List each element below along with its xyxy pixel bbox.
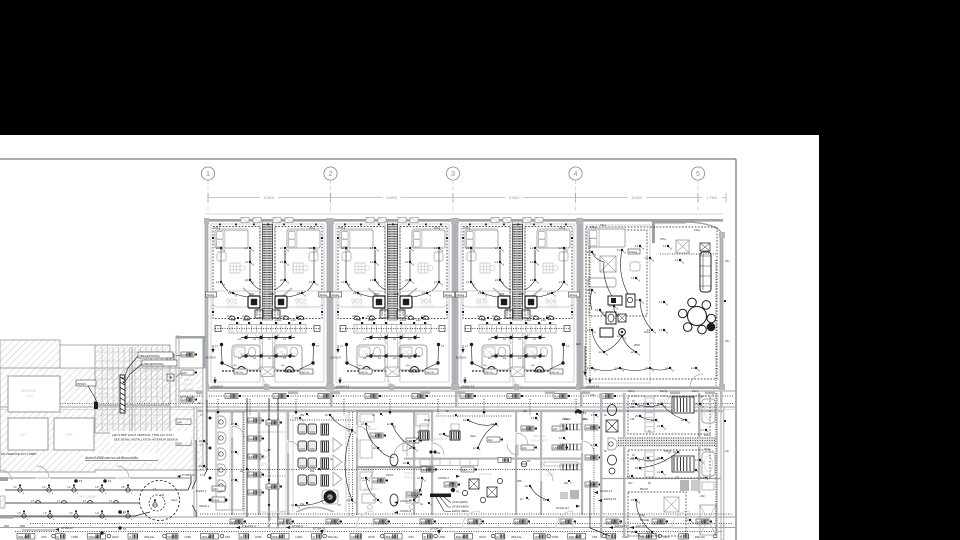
svg-text:2F’9: 2F’9 [262, 455, 271, 460]
svg-text:ELP10-9: ELP10-9 [206, 357, 216, 360]
svg-text:25dL13e: 25dL13e [456, 535, 467, 539]
svg-text:(SL): (SL) [358, 365, 362, 367]
svg-text:L1: L1 [531, 416, 535, 420]
svg-text:1O01: 1O01 [477, 305, 489, 311]
svg-text:WC: WC [532, 352, 537, 356]
svg-text:L2: L2 [631, 530, 635, 534]
svg-text:L5: L5 [635, 414, 639, 418]
svg-text:L2: L2 [363, 337, 366, 341]
waiting area chairs [293, 415, 346, 512]
dirty utility room [167, 336, 206, 407]
svg-text:LP10A-5: LP10A-5 [400, 509, 412, 513]
svg-text:LP10A-3: LP10A-3 [292, 524, 303, 528]
svg-text:EQUIPMENT: EQUIPMENT [531, 439, 548, 443]
svg-text:25e: 25e [300, 414, 305, 417]
svg-text:L1: L1 [657, 470, 661, 474]
svg-text:25b: 25b [517, 479, 522, 483]
svg-text:1O02: 1O02 [296, 305, 308, 311]
svg-text:P-ELP10-3: P-ELP10-3 [242, 524, 256, 528]
svg-text:A24: A24 [373, 479, 378, 483]
svg-text:L7: L7 [231, 422, 235, 426]
consult lower desks [362, 494, 375, 503]
svg-text:L3: L3 [370, 260, 374, 264]
suite wiring runs [592, 252, 604, 262]
treatment area [394, 418, 460, 456]
svg-text:25dL13e: 25dL13e [235, 372, 244, 374]
svg-text:L3: L3 [405, 278, 409, 282]
svg-text:L9LA: L9LA [171, 498, 177, 502]
svg-text:A24: A24 [267, 421, 272, 425]
svg-text:LP10A-17: LP10A-17 [600, 489, 612, 493]
svg-text:L9: L9 [199, 439, 203, 443]
svg-text:L13A: L13A [281, 315, 287, 318]
svg-text:L1: L1 [216, 246, 220, 250]
svg-text:AREA: AREA [404, 476, 412, 480]
svg-text:LP10A-1: LP10A-1 [199, 504, 210, 508]
svg-text:LP3D: LP3D [71, 535, 78, 539]
svg-text:A24: A24 [213, 487, 218, 491]
svg-text:L7: L7 [591, 443, 595, 447]
svg-text:L5: L5 [631, 456, 635, 460]
grid bubble 4 [569, 167, 582, 213]
bottom corridor panels [230, 519, 246, 524]
svg-text:L13A: L13A [242, 315, 248, 318]
svg-text:25dL13e: 25dL13e [695, 535, 706, 539]
svg-text:53e,: 53e, [640, 513, 645, 517]
extra suite dots [635, 414, 643, 418]
svg-text:L1: L1 [466, 246, 470, 250]
svg-text:L5La: L5La [600, 223, 606, 227]
svg-text:L1: L1 [695, 458, 699, 462]
svg-text:8.0000: 8.0000 [509, 196, 519, 200]
svg-text:25dL13e: 25dL13e [202, 535, 213, 539]
svg-text:L33A: L33A [525, 318, 531, 322]
svg-text:25dL13e: 25dL13e [485, 372, 494, 374]
svg-text:L2: L2 [518, 356, 521, 360]
hatch-side riser wire [204, 400, 207, 476]
svg-text:L33: L33 [416, 318, 421, 322]
svg-text:(I): (I) [496, 535, 499, 539]
svg-text:L1: L1 [627, 474, 631, 478]
svg-text:L7: L7 [231, 478, 235, 482]
svg-text:8.0000: 8.0000 [632, 196, 642, 200]
svg-text:L13A: L13A [492, 315, 498, 318]
svg-text:F2: F2 [456, 490, 460, 494]
svg-text:(I): (I) [56, 535, 59, 539]
mid-block feeder [200, 469, 578, 471]
svg-text:CLEAN: CLEAN [546, 468, 556, 472]
svg-text:LP3D: LP3D [439, 535, 446, 539]
svg-text:L1: L1 [466, 280, 470, 284]
svg-text:L13A: L13A [367, 315, 373, 318]
svg-text:ELP10-1: ELP10-1 [196, 489, 207, 493]
svg-text:L33A: L33A [400, 318, 406, 322]
svg-text:LINEN: LINEN [546, 473, 555, 477]
svg-text:L3: L3 [245, 278, 249, 282]
OB10 riser leaders [120, 352, 177, 413]
waiting dots [295, 416, 305, 422]
lower suite half [628, 450, 710, 478]
svg-text:L9: L9 [199, 464, 203, 468]
svg-text:TREATMENT: TREATMENT [430, 437, 448, 441]
suite table [600, 256, 616, 272]
svg-text:4Sodeg: 4Sodeg [319, 295, 328, 297]
svg-text:ELP: ELP [576, 342, 581, 346]
svg-text:L2: L2 [387, 422, 391, 426]
svg-text:L2: L2 [488, 356, 491, 360]
bottom strip fixture tags [15, 532, 722, 540]
svg-text:L5T-g: L5T-g [559, 227, 566, 230]
svg-text:A24: A24 [249, 455, 254, 459]
svg-text:OB10(EXISTING): OB10(EXISTING) [140, 354, 160, 358]
nurse area [394, 458, 511, 514]
svg-text:L33: L33 [291, 318, 296, 322]
svg-text:L1: L1 [309, 246, 313, 250]
wing door arc [690, 374, 703, 387]
suite light dots [587, 250, 597, 256]
svg-text:L1: L1 [657, 424, 661, 428]
svg-text:L13A: L13A [406, 315, 412, 318]
svg-text:(I): (I) [424, 535, 427, 539]
svg-text:25dl: 25dl [20, 524, 25, 528]
svg-text:Y3: Y3 [337, 503, 341, 507]
svg-text:LR2O: LR2O [663, 535, 670, 539]
svg-text:L2: L2 [473, 446, 477, 450]
svg-text:L3: L3 [631, 276, 635, 280]
svg-text:L7: L7 [566, 344, 569, 348]
svg-text:3: 3 [451, 169, 455, 178]
svg-text:L5TA: L5TA [249, 293, 255, 296]
svg-text:25dL13e: 25dL13e [426, 372, 435, 374]
svg-text:L13A: L13A [531, 315, 537, 318]
svg-text:A24: A24 [553, 446, 558, 450]
svg-text:A24: A24 [488, 438, 493, 442]
svg-text:L3: L3 [647, 530, 651, 534]
lounge risers [715, 260, 717, 386]
svg-text:CKR3: CKR3 [535, 535, 542, 539]
svg-text:KR3: KR3 [225, 535, 231, 539]
svg-text:25e: 25e [450, 481, 455, 485]
svg-text:25mn: 25mn [564, 417, 571, 421]
svg-text:L5LJ: L5LJ [582, 417, 588, 421]
svg-text:L2: L2 [325, 413, 329, 417]
svg-text:LP10A-27: LP10A-27 [61, 526, 74, 530]
svg-text:L33: L33 [541, 318, 546, 322]
upper suite half [628, 396, 710, 434]
svg-text:L5U-g: L5U-g [704, 448, 711, 451]
below-wall tags [594, 480, 714, 502]
svg-text:L2: L2 [373, 446, 377, 450]
svg-text:L7: L7 [701, 428, 705, 432]
shelving left of suites [560, 410, 587, 470]
vertical corridor dotted [348, 412, 350, 516]
svg-text:L5La: L5La [644, 330, 650, 334]
corridor feeders [180, 395, 733, 397]
svg-text:L33A: L33A [493, 318, 499, 322]
svg-text:L1: L1 [645, 256, 649, 260]
svg-text:53e,5g: 53e,5g [660, 390, 668, 393]
door openings [231, 425, 595, 481]
lower rooms bottom-right [590, 393, 716, 538]
grid bubble 1 [201, 167, 214, 213]
svg-text:L5TA: L5TA [499, 293, 505, 296]
svg-text:L2: L2 [533, 337, 536, 341]
svg-text:L2: L2 [417, 476, 421, 480]
svg-text:L1: L1 [530, 246, 534, 250]
svg-text:L3: L3 [643, 402, 647, 406]
svg-text:L3: L3 [370, 278, 374, 282]
drop dots [217, 411, 220, 414]
grid bubble 3 [446, 167, 459, 213]
svg-text:25dL13e: 25dL13e [511, 535, 522, 539]
sheet border right [735, 159, 737, 540]
svg-text:(SL): (SL) [406, 365, 410, 367]
svg-text:L5U-g: L5U-g [628, 390, 635, 393]
svg-text:D1: D1 [527, 459, 531, 463]
svg-text:ELP10-9: ELP10-9 [456, 357, 466, 360]
svg-text:L3: L3 [405, 260, 409, 264]
lower bathrooms [176, 412, 243, 510]
svg-text:A24: A24 [555, 394, 560, 398]
svg-text:L2: L2 [408, 356, 411, 360]
svg-text:L2: L2 [503, 356, 506, 360]
svg-text:25dL13e: 25dL13e [18, 535, 29, 539]
svg-text:L2: L2 [503, 337, 506, 341]
svg-text:F3: F3 [295, 416, 299, 420]
clean linen room [517, 459, 580, 510]
svg-text:L33: L33 [231, 318, 236, 322]
svg-text:L33A: L33A [243, 318, 249, 322]
suite pantry cluster [600, 294, 635, 337]
svg-text:A24: A24 [522, 427, 527, 431]
svg-text:L1: L1 [370, 246, 374, 250]
svg-text:L2: L2 [533, 356, 536, 360]
svg-text:L7: L7 [231, 450, 235, 454]
svg-text:25dL13e: 25dL13e [328, 535, 339, 539]
guest room pair 901/902 [204, 218, 331, 391]
svg-text:LP10A-7: LP10A-7 [438, 476, 450, 480]
svg-text:L2: L2 [238, 356, 241, 360]
waiting pendant [322, 490, 341, 507]
lower block walls [0, 407, 736, 540]
svg-text:25e: 25e [523, 410, 528, 413]
svg-text:MEDICAL: MEDICAL [533, 434, 546, 438]
svg-text:L5T-g: L5T-g [464, 227, 471, 230]
svg-text:L2: L2 [393, 356, 396, 360]
svg-text:25dL13e: 25dL13e [385, 535, 396, 539]
reception counter [296, 507, 334, 512]
lounge sofa [700, 252, 711, 292]
svg-text:L33A: L33A [275, 318, 281, 322]
lower-left extra dots [209, 417, 212, 420]
balcony rail line [205, 213, 723, 215]
svg-text:L3e: L3e [725, 450, 730, 453]
svg-text:(SL): (SL) [281, 365, 285, 367]
BP10/1 leader [76, 380, 98, 409]
upper stubs [0, 340, 95, 368]
svg-text:A24: A24 [508, 394, 513, 398]
svg-text:L5T-g: L5T-g [434, 227, 441, 230]
svg-text:1O02: 1O02 [546, 305, 558, 311]
existing core hatched [0, 368, 206, 472]
svg-text:LP10A-11: LP10A-11 [336, 385, 349, 389]
svg-text:NURSE: NURSE [404, 471, 414, 475]
svg-text:LP10A (NEW): LP10A (NEW) [452, 505, 469, 509]
svg-text:P10-5: P10-5 [386, 473, 393, 477]
svg-text:LIFT: LIFT [20, 433, 27, 437]
svg-text:1O02: 1O02 [421, 305, 433, 311]
svg-text:A24: A24 [407, 493, 412, 497]
svg-text:LP10A-2H: LP10A-2H [556, 506, 568, 510]
svg-text:A24: A24 [586, 456, 591, 460]
svg-text:L3: L3 [495, 260, 499, 264]
svg-text:L3: L3 [245, 260, 249, 264]
svg-text:L3: L3 [631, 498, 635, 502]
svg-text:L1: L1 [659, 328, 663, 332]
svg-text:L2: L2 [238, 337, 241, 341]
svg-text:L2: L2 [415, 488, 419, 492]
svg-text:L2: L2 [361, 476, 365, 480]
svg-text:LR2O: LR2O [112, 535, 119, 539]
svg-text:L2: L2 [253, 337, 256, 341]
svg-text:KR3: KR3 [409, 535, 415, 539]
svg-text:WC: WC [490, 352, 495, 356]
svg-text:L3: L3 [530, 260, 534, 264]
svg-text:2: 2 [329, 169, 333, 178]
svg-text:L5: L5 [635, 466, 639, 470]
svg-text:TO BP10/1: TO BP10/1 [182, 473, 195, 477]
svg-text:LP3D: LP3D [368, 535, 375, 539]
svg-text:L1: L1 [617, 248, 621, 252]
svg-text:LIFT: LIFT [66, 433, 73, 437]
svg-text:L2: L2 [378, 337, 381, 341]
svg-text:L5: L5 [631, 402, 635, 406]
svg-text:25W: 25W [634, 343, 640, 347]
right corridor column [583, 412, 601, 515]
svg-text:LSLa: LSLa [213, 498, 220, 502]
svg-text:LIFT LOBBY: LIFT LOBBY [78, 495, 98, 499]
svg-text:L1: L1 [691, 366, 695, 370]
svg-text:A24: A24 [249, 437, 254, 441]
vertical feeders [246, 398, 248, 517]
svg-text:A24: A24 [366, 394, 371, 398]
lounge armchair [676, 240, 689, 253]
medical equipment room [521, 409, 585, 450]
svg-text:เดินสายไฟใต้ฝ้าเพดานละผนังฟินล: เดินสายไฟใต้ฝ้าเพดานละผนังฟินละผนังฟิน [85, 456, 138, 460]
svg-text:L1: L1 [695, 402, 699, 406]
svg-text:L13A: L13A [227, 315, 233, 318]
LED strip note [110, 431, 191, 442]
suite sofa [588, 278, 616, 287]
svg-text:(SL): (SL) [233, 365, 237, 367]
suite bed [588, 228, 625, 248]
svg-text:LOUNGE: LOUNGE [479, 472, 492, 476]
svg-text:A24: A24 [319, 394, 324, 398]
svg-text:L2: L2 [347, 498, 351, 502]
svg-text:L1: L1 [434, 246, 438, 250]
svg-text:L5T-g: L5T-g [590, 226, 597, 229]
svg-text:L1: L1 [659, 300, 663, 304]
grid bubble 2 [324, 167, 337, 213]
svg-text:LP10A-9: LP10A-9 [211, 385, 223, 389]
F3 dots [103, 479, 111, 483]
svg-text:ELP10-17: ELP10-17 [615, 524, 627, 528]
svg-text:A24: A24 [274, 394, 279, 398]
suite wing walls [577, 218, 725, 390]
svg-text:LP10A-23: LP10A-23 [430, 527, 443, 531]
svg-text:L2: L2 [408, 337, 411, 341]
bottom right suite walls [600, 393, 721, 538]
svg-text:A24: A24 [249, 473, 254, 477]
svg-text:4Sodeg: 4Sodeg [444, 295, 453, 297]
svg-text:25dL13e: 25dL13e [360, 372, 369, 374]
svg-text:L2: L2 [268, 356, 271, 360]
svg-text:A24: A24 [375, 520, 380, 524]
svg-text:25e: 25e [310, 470, 315, 473]
svg-text:L2: L2 [488, 337, 491, 341]
svg-text:L2: L2 [525, 484, 529, 488]
svg-text:L33: L33 [356, 318, 361, 322]
svg-text:25dL13e: 25dL13e [144, 535, 155, 539]
right bathtubs [702, 399, 715, 476]
svg-text:(I): (I) [240, 535, 243, 539]
svg-text:25ef: 25ef [4, 524, 9, 528]
svg-text:LP3D: LP3D [255, 535, 262, 539]
svg-text:25dL13e: 25dL13e [551, 372, 560, 374]
svg-text:ELP10-9: ELP10-9 [331, 357, 341, 360]
svg-text:L2: L2 [361, 422, 365, 426]
svg-text:L5U: L5U [725, 340, 730, 343]
dimension line [208, 193, 726, 202]
lobby risers to corridor [192, 440, 196, 489]
lobby wiring row 1 [5, 476, 191, 495]
svg-text:4Sodeg: 4Sodeg [456, 295, 465, 297]
svg-text:C3: C3 [153, 487, 157, 491]
svg-text:L2: L2 [363, 356, 366, 360]
svg-text:L5U: L5U [725, 260, 730, 263]
svg-text:LIFT: LIFT [27, 394, 34, 398]
svg-text:L2: L2 [595, 308, 599, 312]
svg-text:55mdf: 55mdf [640, 487, 648, 491]
svg-text:1O01: 1O01 [227, 305, 239, 311]
svg-text:2F10: 2F10 [261, 462, 271, 467]
svg-text:KR3: KR3 [41, 535, 47, 539]
svg-text:WC: WC [282, 352, 287, 356]
stair block [95, 345, 170, 433]
svg-text:(I): (I) [313, 535, 316, 539]
svg-text:25e: 25e [300, 503, 305, 506]
svg-text:L1: L1 [405, 246, 409, 250]
svg-text:BP10/1: BP10/1 [78, 382, 87, 386]
svg-text:ELP10 (NEW): ELP10 (NEW) [452, 509, 469, 513]
svg-text:4: 4 [574, 169, 578, 178]
central dotted bundle [618, 434, 716, 451]
svg-text:W10: W10 [264, 448, 273, 453]
svg-text:A24: A24 [279, 520, 284, 524]
svg-text:1O01: 1O01 [352, 305, 364, 311]
svg-text:L5La: L5La [470, 434, 476, 438]
svg-text:L3: L3 [280, 278, 284, 282]
svg-text:LP10A-25: LP10A-25 [313, 527, 326, 531]
svg-text:L7: L7 [465, 344, 468, 348]
suite bulkhead [586, 225, 650, 383]
svg-text:A24: A24 [327, 520, 332, 524]
svg-text:A24: A24 [267, 485, 272, 489]
svg-text:L3: L3 [530, 278, 534, 282]
bottom corridor dashes [30, 523, 733, 525]
svg-text:SERVICE: SERVICE [21, 389, 37, 393]
svg-text:L7: L7 [340, 344, 343, 348]
